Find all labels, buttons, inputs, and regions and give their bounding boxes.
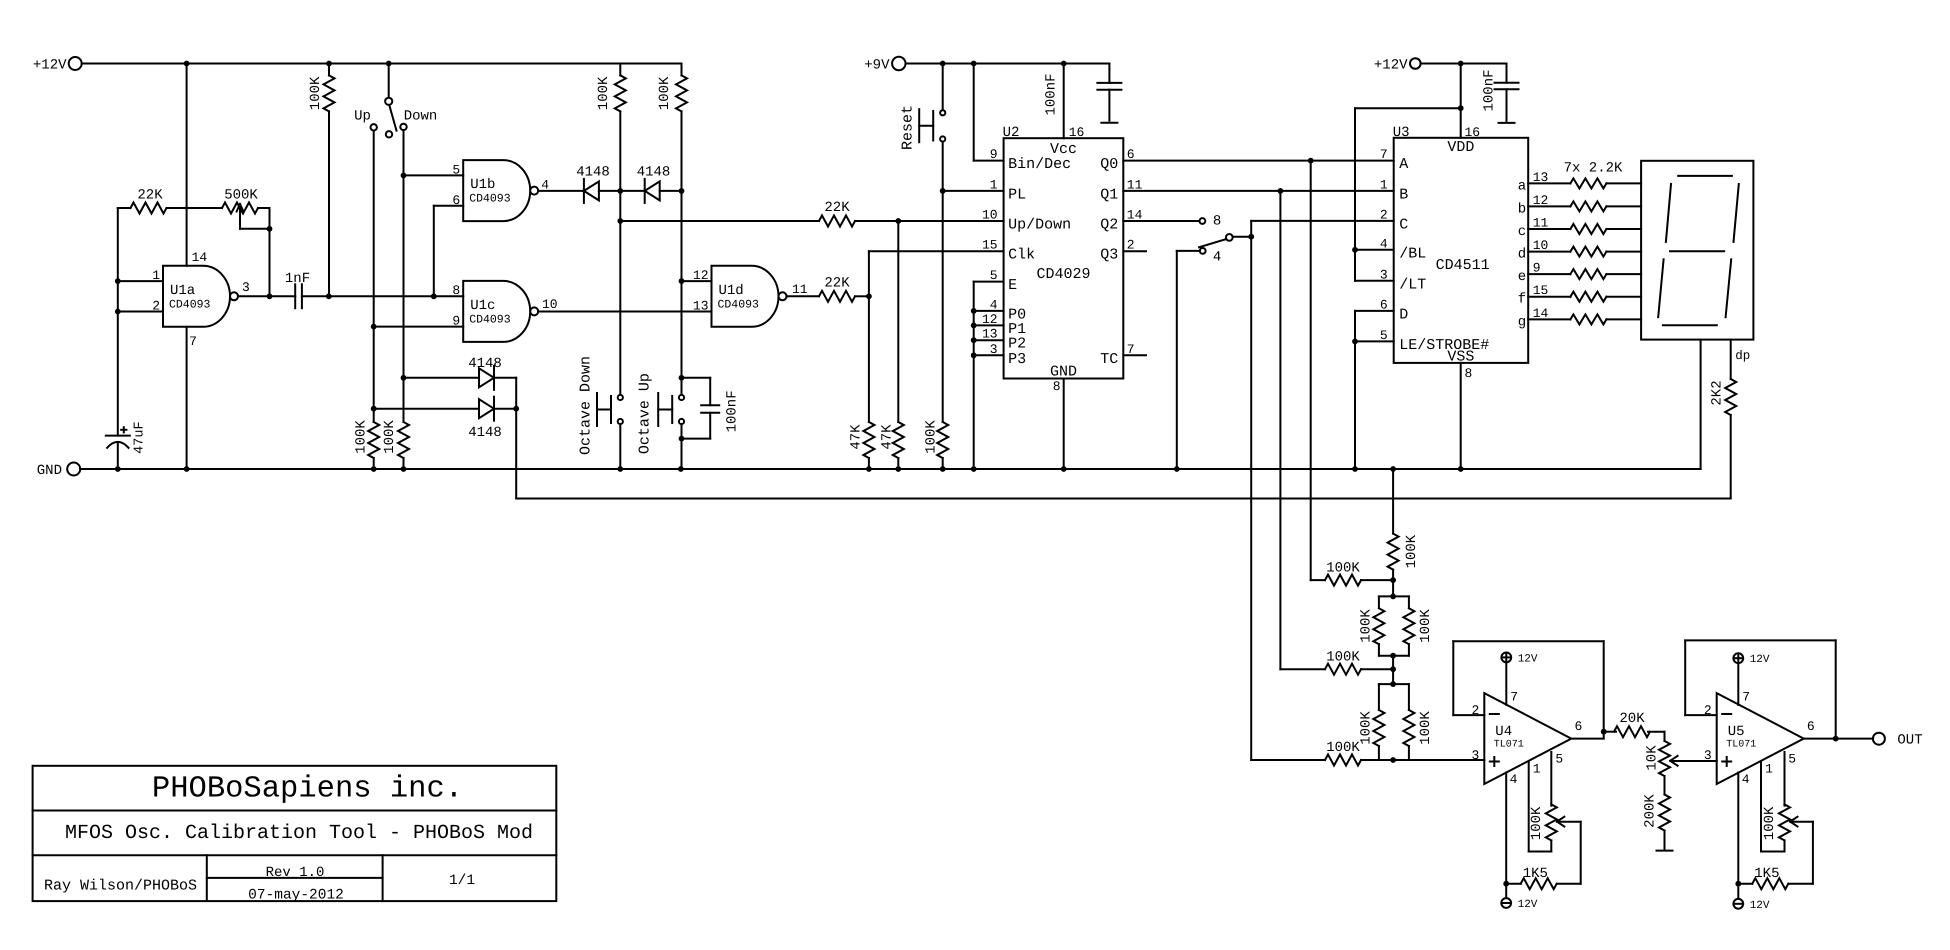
svg-text:3: 3 <box>1471 748 1479 763</box>
svg-text:4148: 4148 <box>637 165 671 181</box>
svg-text:100K: 100K <box>1358 609 1374 643</box>
svg-text:CD4093: CD4093 <box>469 193 511 206</box>
svg-text:7x 2.2K: 7x 2.2K <box>1564 160 1623 176</box>
svg-text:Down: Down <box>404 109 438 125</box>
svg-text:TL071: TL071 <box>1494 740 1524 751</box>
svg-text:12V: 12V <box>1750 654 1770 666</box>
svg-text:/BL: /BL <box>1399 245 1426 262</box>
svg-text:4: 4 <box>1510 772 1518 787</box>
svg-text:CD4029: CD4029 <box>1036 266 1090 283</box>
svg-text:Octave Up: Octave Up <box>637 373 654 454</box>
svg-text:8: 8 <box>1465 366 1473 381</box>
svg-text:CD4093: CD4093 <box>718 298 760 311</box>
svg-text:2: 2 <box>1471 703 1479 718</box>
svg-text:100nF: 100nF <box>1482 69 1498 111</box>
svg-text:4148: 4148 <box>576 165 610 181</box>
svg-text:1: 1 <box>1765 762 1773 777</box>
svg-text:100K: 100K <box>1404 534 1420 568</box>
svg-text:1: 1 <box>152 268 160 283</box>
svg-text:8: 8 <box>1053 379 1061 394</box>
svg-text:100K: 100K <box>1418 609 1434 643</box>
svg-text:5: 5 <box>452 162 460 177</box>
svg-text:f: f <box>1518 292 1526 308</box>
svg-text:200K: 200K <box>1643 794 1659 828</box>
svg-text:D: D <box>1399 306 1408 323</box>
svg-text:CD4093: CD4093 <box>469 313 511 326</box>
svg-text:5: 5 <box>1788 752 1796 767</box>
svg-text:b: b <box>1518 201 1526 217</box>
svg-text:100K: 100K <box>1326 560 1360 576</box>
svg-text:TC: TC <box>1100 351 1118 368</box>
svg-text:Reset: Reset <box>900 105 917 150</box>
svg-text:1: 1 <box>1533 762 1541 777</box>
svg-text:100nF: 100nF <box>725 390 741 432</box>
svg-text:2K2: 2K2 <box>1710 380 1726 405</box>
svg-text:8: 8 <box>1213 214 1221 230</box>
svg-text:10: 10 <box>542 297 558 312</box>
svg-text:4148: 4148 <box>468 425 502 441</box>
svg-text:4: 4 <box>541 177 549 192</box>
svg-text:Rev 1.0: Rev 1.0 <box>266 865 325 881</box>
svg-text:100K: 100K <box>1418 711 1434 745</box>
svg-text:VDD: VDD <box>1447 139 1474 156</box>
svg-text:500K: 500K <box>224 188 258 204</box>
svg-text:3: 3 <box>1704 748 1712 763</box>
svg-text:13: 13 <box>693 299 709 314</box>
svg-text:100K: 100K <box>382 420 398 454</box>
svg-text:100K: 100K <box>924 420 940 454</box>
svg-text:6: 6 <box>1575 719 1583 734</box>
svg-text:U1c: U1c <box>470 298 495 314</box>
svg-text:16: 16 <box>1465 125 1481 140</box>
svg-text:2: 2 <box>152 299 160 314</box>
svg-text:2: 2 <box>1380 207 1388 222</box>
svg-text:LE/STROBE#: LE/STROBE# <box>1399 337 1489 354</box>
svg-text:e: e <box>1518 269 1526 285</box>
svg-text:OUT: OUT <box>1897 733 1922 749</box>
svg-text:22K: 22K <box>824 276 850 292</box>
svg-text:CD4093: CD4093 <box>169 298 211 311</box>
svg-text:Q2: Q2 <box>1100 217 1118 234</box>
svg-text:47K: 47K <box>880 424 896 450</box>
svg-text:dp: dp <box>1735 349 1750 363</box>
svg-text:12V: 12V <box>1518 899 1538 911</box>
svg-text:5: 5 <box>1555 752 1563 767</box>
svg-text:8: 8 <box>452 283 460 298</box>
svg-text:Q3: Q3 <box>1100 247 1118 264</box>
svg-text:10: 10 <box>982 208 998 223</box>
svg-text:100K: 100K <box>1762 806 1778 840</box>
svg-text:GND: GND <box>37 463 62 479</box>
svg-text:d: d <box>1518 247 1526 263</box>
svg-text:MFOS Osc. Calibration Tool - P: MFOS Osc. Calibration Tool - PHOBoS Mod <box>65 822 533 845</box>
svg-text:Q1: Q1 <box>1100 186 1118 203</box>
svg-text:1: 1 <box>1380 177 1388 192</box>
svg-text:47K: 47K <box>849 424 865 450</box>
svg-text:6: 6 <box>1807 719 1815 734</box>
svg-text:P3: P3 <box>1008 351 1026 368</box>
svg-text:Up/Down: Up/Down <box>1008 217 1071 234</box>
svg-text:4: 4 <box>1742 772 1750 787</box>
svg-text:22K: 22K <box>137 188 163 204</box>
svg-text:U1b: U1b <box>470 177 495 193</box>
svg-text:22K: 22K <box>824 200 850 216</box>
svg-text:U1d: U1d <box>719 283 744 299</box>
svg-text:47uF: 47uF <box>132 421 147 453</box>
svg-text:1K5: 1K5 <box>1523 866 1548 882</box>
svg-text:PL: PL <box>1008 186 1026 203</box>
svg-text:Octave Down: Octave Down <box>578 356 595 455</box>
svg-text:1/1: 1/1 <box>449 873 475 889</box>
svg-text:100K: 100K <box>1326 740 1360 756</box>
svg-text:11: 11 <box>792 282 808 297</box>
svg-text:C: C <box>1399 216 1408 233</box>
svg-text:07-may-2012: 07-may-2012 <box>248 888 344 904</box>
svg-text:Up: Up <box>354 109 371 125</box>
svg-text:100K: 100K <box>1326 649 1360 665</box>
svg-text:TL071: TL071 <box>1726 740 1756 751</box>
svg-text:3: 3 <box>242 280 250 295</box>
svg-text:4148: 4148 <box>468 356 502 372</box>
svg-text:A: A <box>1399 156 1408 173</box>
svg-text:a: a <box>1518 178 1526 194</box>
svg-text:+9V: +9V <box>864 58 890 74</box>
svg-text:100K: 100K <box>354 420 370 454</box>
svg-text:B: B <box>1399 186 1408 203</box>
svg-text:2: 2 <box>1704 703 1712 718</box>
svg-text:100K: 100K <box>596 76 612 110</box>
svg-text:100K: 100K <box>308 76 324 110</box>
svg-text:100K: 100K <box>657 76 673 110</box>
svg-text:E: E <box>1008 277 1017 294</box>
svg-text:U5: U5 <box>1728 724 1745 740</box>
svg-text:15: 15 <box>982 238 998 253</box>
svg-text:Ray Wilson/PHOBoS: Ray Wilson/PHOBoS <box>44 878 197 895</box>
svg-text:g: g <box>1518 314 1526 330</box>
svg-text:12V: 12V <box>1518 653 1538 665</box>
svg-text:U2: U2 <box>1003 125 1020 141</box>
svg-text:12V: 12V <box>1750 900 1770 912</box>
svg-text:Q0: Q0 <box>1100 156 1118 173</box>
svg-text:7: 7 <box>1742 690 1750 705</box>
svg-text:7: 7 <box>189 334 197 349</box>
svg-text:Clk: Clk <box>1008 247 1035 264</box>
svg-text:9: 9 <box>452 314 460 329</box>
svg-text:1K5: 1K5 <box>1754 866 1779 882</box>
svg-text:14: 14 <box>192 250 208 265</box>
svg-text:6: 6 <box>452 193 460 208</box>
svg-text:Bin/Dec: Bin/Dec <box>1008 156 1071 173</box>
svg-text:100nF: 100nF <box>1044 73 1060 115</box>
svg-text:7: 7 <box>1380 147 1388 162</box>
svg-text:c: c <box>1518 224 1526 240</box>
svg-text:+12V: +12V <box>33 58 67 74</box>
svg-text:PHOBoSapiens inc.: PHOBoSapiens inc. <box>152 773 463 807</box>
svg-text:7: 7 <box>1510 690 1518 705</box>
svg-text:+12V: +12V <box>1374 58 1408 74</box>
svg-text:9: 9 <box>990 147 998 162</box>
svg-text:16: 16 <box>1069 125 1085 140</box>
svg-text:U1a: U1a <box>170 283 195 299</box>
svg-text:CD4511: CD4511 <box>1436 257 1490 274</box>
svg-text:10K: 10K <box>1644 745 1660 771</box>
svg-text:100K: 100K <box>1529 806 1545 840</box>
svg-text:20K: 20K <box>1619 711 1645 727</box>
svg-text:U3: U3 <box>1393 125 1410 141</box>
svg-text:1nF: 1nF <box>285 271 310 287</box>
svg-text:12: 12 <box>693 268 709 283</box>
svg-text:4: 4 <box>1213 250 1221 266</box>
svg-text:100K: 100K <box>1358 711 1374 745</box>
svg-text:U4: U4 <box>1495 724 1512 740</box>
svg-text:/LT: /LT <box>1399 276 1426 293</box>
